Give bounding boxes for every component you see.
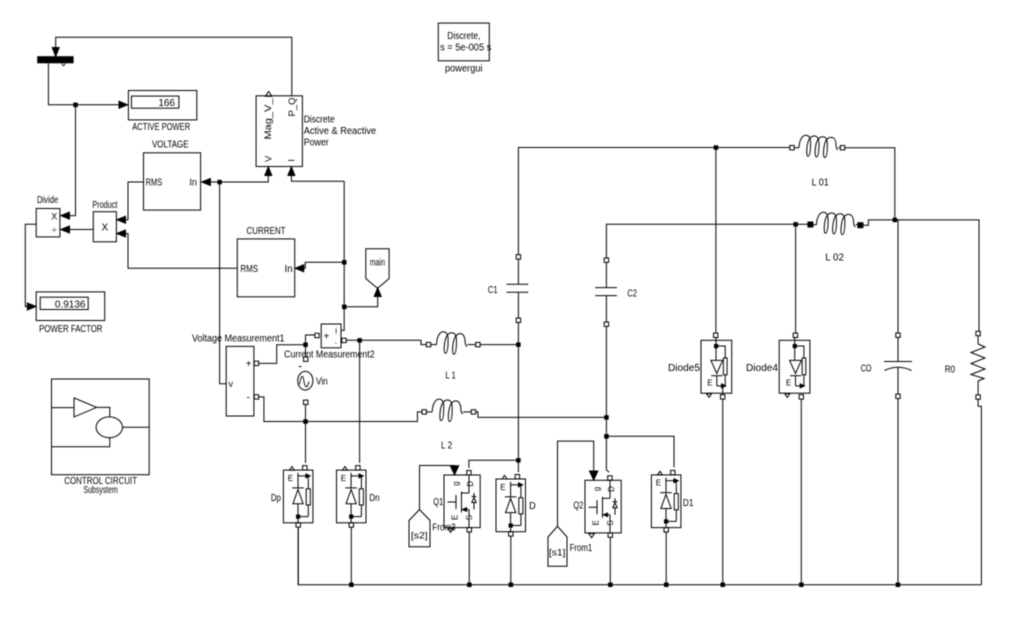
svg-text:R0: R0: [945, 364, 956, 375]
node: junction D bottom rail: [509, 583, 512, 587]
wire: i column to CURRENT In: [295, 262, 344, 272]
second rail right portion to R0: [863, 220, 979, 331]
svg-text:Discrete: Discrete: [304, 114, 335, 125]
svg-text:+: +: [324, 331, 330, 342]
svg-text:L 02: L 02: [825, 253, 844, 264]
svg-text:powergui: powergui: [445, 64, 483, 75]
node: junction top rail / Diode5 riser: [714, 146, 718, 150]
svg-text:I: I: [287, 159, 297, 162]
svg-text:Discrete,: Discrete,: [447, 31, 480, 42]
node: junction V wire / VM1 v signal: [218, 180, 222, 184]
wire: From1 to Q2 gate: [558, 441, 598, 526]
svg-text:Product: Product: [92, 200, 117, 211]
inductor L02: [808, 212, 863, 263]
svg-text:s = 5e-005 s: s = 5e-005 s: [440, 42, 491, 53]
svg-text:D1: D1: [683, 498, 694, 509]
svg-text:In: In: [190, 177, 197, 188]
svg-text:E: E: [707, 379, 712, 388]
inductor L1: [426, 332, 480, 382]
wire: CO riser: [897, 220, 899, 333]
svg-text:Vin: Vin: [316, 377, 328, 388]
svg-text:÷: ÷: [52, 225, 57, 235]
diode block Dp: [271, 466, 313, 528]
wire: CO bottom descender: [897, 399, 899, 585]
wire: CM2 i output signal column: [341, 181, 344, 330]
wire: i column to goto main: [344, 288, 381, 307]
node: junction second rail / Diode4 riser: [794, 223, 798, 227]
top rail wire from C1 to L01: [518, 148, 789, 255]
mosfet block Q2: [573, 476, 621, 538]
svg-text:POWER FACTOR: POWER FACTOR: [39, 324, 102, 335]
svg-text:ACTIVE POWER: ACTIVE POWER: [132, 122, 190, 133]
svg-text:E: E: [786, 379, 791, 388]
wire: From3 to Q1 gate: [420, 466, 459, 510]
svg-text:CURRENT: CURRENT: [247, 226, 286, 237]
svg-text:0.9136: 0.9136: [55, 300, 86, 311]
wire: VOLTAGE RMS output to Product input 1: [117, 182, 144, 223]
wire: Dn bottom descender: [350, 527, 352, 585]
wire: C2 column to D1 top: [606, 436, 674, 467]
display ACTIVE POWER: [128, 91, 196, 133]
wire: L2 to C2 column: [476, 412, 607, 418]
node: junction i column / main branch: [343, 305, 347, 309]
wire: Q1 drain to C1 column: [469, 460, 519, 468]
node: junction Q2 bottom rail: [609, 583, 613, 587]
svg-text:Active & Reactive: Active & Reactive: [304, 126, 377, 137]
wire: R0 bottom descender: [978, 399, 981, 584]
node: junction Dn bottom rail: [350, 583, 354, 587]
from tag From3 [s2]: [409, 510, 456, 547]
svg-text:166: 166: [158, 98, 175, 109]
svg-text:Current Measurement2: Current Measurement2: [284, 350, 375, 361]
svg-text:CO: CO: [861, 363, 872, 374]
wire: CM2 output to L1: [346, 340, 426, 344]
subsystem CONTROL CIRCUIT: [52, 379, 150, 496]
wire: Vin top to CM2 plus input: [306, 335, 315, 357]
svg-text:Q2: Q2: [573, 501, 583, 512]
svg-text:From1: From1: [570, 543, 593, 554]
diode block D: [496, 475, 536, 537]
svg-text:P_Q: P_Q: [287, 98, 297, 117]
svg-text:L 2: L 2: [441, 441, 453, 452]
inductor L2: [422, 399, 476, 452]
node: junction C1 column / Q1 drain wire: [517, 459, 521, 463]
product block Product: [92, 200, 117, 242]
svg-text:[s1]: [s1]: [549, 547, 566, 557]
svg-text:+: +: [246, 359, 252, 370]
diode block D1: [651, 470, 693, 532]
wire: V input riser to power block: [202, 167, 272, 182]
svg-text:Q1: Q1: [433, 497, 443, 508]
svg-text:From3: From3: [432, 522, 456, 533]
svg-text:C2: C2: [627, 289, 637, 300]
svg-text:-: -: [247, 393, 250, 404]
node: junction C2 column / D1 branch: [605, 435, 609, 439]
current measurement block Current Measurement2: [284, 324, 375, 361]
svg-text:Diode4: Diode4: [746, 363, 778, 374]
svg-text:[s2]: [s2]: [411, 531, 428, 541]
goto tag main: [366, 249, 389, 289]
wire: Vin bottom down to Dp top: [305, 405, 307, 463]
wire: VM1 minus to L2 row: [259, 397, 422, 422]
svg-text:L 1: L 1: [445, 371, 456, 382]
capacitor CO: [861, 333, 912, 399]
wire: D bottom descender: [510, 536, 512, 585]
wire: Diode4 riser: [795, 224, 797, 333]
voltage measurement block Voltage Measurement1: [192, 334, 285, 416]
wire: CURRENT RMS output to Product input 2: [117, 230, 238, 268]
svg-text:i: i: [335, 327, 337, 336]
diode block Diode4: [746, 333, 810, 399]
node: junction CM2 output / Dn column: [358, 339, 362, 343]
node: junction CO bottom rail: [896, 583, 900, 587]
node: junction Vin bottom / VM1 minus wire: [304, 420, 308, 424]
node: junction i column / CURRENT In branch: [343, 261, 347, 265]
svg-text:RMS: RMS: [146, 177, 163, 188]
RMS block CURRENT: [237, 226, 294, 297]
node: junction VM1 plus / Vin top: [304, 343, 308, 347]
diode block Dn: [337, 466, 380, 528]
wire: VM1 v output up to VOLTAGE In junction: [220, 182, 227, 384]
wire: L01 to second rail: [845, 148, 895, 220]
svg-text:VOLTAGE: VOLTAGE: [152, 139, 189, 150]
svg-text:v: v: [229, 379, 234, 389]
wire: bar to ACTIVE POWER display: [48, 63, 127, 108]
svg-text:C1: C1: [488, 285, 498, 296]
node: junction Q1 bottom rail: [468, 583, 472, 587]
capacitor C2: [595, 258, 637, 326]
node: junction bar-display wire: [74, 103, 78, 107]
svg-text:RMS: RMS: [240, 264, 258, 275]
display POWER FACTOR: [36, 292, 105, 335]
wire: junction down to Divide X input: [61, 107, 76, 220]
svg-text:Diode5: Diode5: [668, 363, 700, 374]
wire: Diode5 riser: [715, 148, 717, 334]
AC source Vin: [298, 357, 328, 405]
wire: Product output to Divide input: [61, 226, 94, 233]
divide block Divide: [36, 195, 60, 237]
capacitor C1: [488, 255, 528, 323]
svg-text:main: main: [370, 258, 385, 269]
wire: Divide output to POWER FACTOR display: [25, 224, 36, 310]
svg-text:V: V: [264, 156, 274, 162]
wire: D1 bottom descender: [665, 532, 667, 585]
wire: Q2 source descender: [609, 537, 611, 584]
wire: I riser to power block: [288, 167, 344, 182]
svg-text:Dp: Dp: [271, 493, 281, 504]
node: junction Diode5 bottom rail: [721, 583, 725, 587]
svg-text:In: In: [285, 264, 293, 275]
node: junction L2 wire / C2 column: [605, 416, 609, 420]
resistor R0: [945, 331, 985, 399]
node: junction second rail / L01 drop / CO riser: [893, 218, 897, 222]
wire: Q1 source descender: [468, 532, 470, 585]
node: junction L1 / C1 column: [517, 343, 521, 347]
node: junction Diode4 bottom rail: [800, 583, 804, 587]
wire: C2 column down to Q2 drain: [606, 326, 609, 472]
svg-text:X: X: [101, 223, 108, 234]
node: junction D1 bottom rail: [665, 583, 669, 587]
wire: C1 column down to D: [517, 323, 519, 473]
wire: VM1 plus to CM2 input column: [259, 345, 306, 364]
svg-text:Dn: Dn: [369, 493, 379, 504]
wire: Diode5 bottom descender: [722, 399, 724, 585]
svg-text:.: .: [335, 336, 338, 346]
svg-text:Mag_V_: Mag_V_: [263, 97, 273, 139]
wire: Dn column down: [359, 342, 361, 463]
second rail wire from C2 to L02: [606, 224, 808, 258]
svg-text:Subsystem: Subsystem: [83, 485, 117, 496]
wire: power P output to bar: [52, 37, 292, 95]
svg-text:Voltage Measurement1: Voltage Measurement1: [192, 334, 285, 345]
wire: L1 to C1 column: [480, 344, 518, 346]
RMS block VOLTAGE: [144, 139, 201, 210]
inductor L01: [790, 135, 845, 188]
from tag From1 [s1]: [548, 526, 593, 566]
power measurement block U1 Discrete Active &amp; Reactive Power: [256, 91, 376, 166]
arrow into VOLTAGE In: [202, 179, 211, 186]
svg-text:D: D: [529, 501, 536, 512]
wire: Diode4 bottom descender: [800, 399, 802, 585]
powergui block: [438, 23, 491, 74]
diode block Diode5: [668, 333, 732, 399]
svg-text:Divide: Divide: [37, 195, 59, 206]
bottom rail wire: [298, 529, 981, 585]
mosfet block Q1: [433, 471, 480, 533]
wire: Dp bottom descender: [297, 527, 299, 585]
terminator bar T1: [38, 57, 73, 66]
svg-text:X: X: [51, 212, 57, 222]
svg-text:L 01: L 01: [812, 177, 829, 188]
svg-text:Power: Power: [304, 138, 330, 149]
